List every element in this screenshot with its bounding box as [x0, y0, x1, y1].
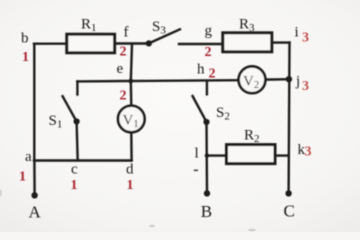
wire bottom rail a-c-d — [34, 159, 132, 161]
svg-text:2: 2 — [120, 45, 127, 60]
wire a to terminal A — [33, 161, 36, 195]
node l junction dot — [205, 153, 209, 157]
svg-text:g: g — [205, 23, 213, 39]
svg-text:1: 1 — [19, 170, 26, 185]
svg-text:1: 1 — [22, 50, 29, 65]
wire left column b to a — [33, 44, 35, 161]
svg-text:a: a — [25, 149, 32, 165]
wire S2 top stub (node h) — [206, 81, 208, 95]
svg-text:3: 3 — [302, 79, 309, 94]
svg-text:2: 2 — [209, 67, 216, 82]
switch S1 — [49, 95, 80, 130]
node e junction dot — [128, 79, 133, 84]
svg-text:j: j — [295, 74, 300, 90]
terminal B dot — [204, 190, 210, 196]
wire node e down to V1 — [130, 81, 133, 106]
voltmeter V2 — [239, 66, 266, 93]
wire R3 to corner i — [272, 41, 290, 43]
wire R2 to node k — [275, 154, 289, 156]
wire node f down to node e — [131, 44, 132, 81]
svg-text:C: C — [284, 202, 295, 221]
switch S3 — [146, 19, 181, 47]
terminal A dot — [31, 192, 37, 198]
wire R1 to S3 (node f) — [115, 42, 149, 44]
svg-text:d: d — [126, 162, 134, 178]
svg-text:A: A — [29, 203, 42, 222]
svg-text:3: 3 — [302, 31, 309, 46]
svg-text:i: i — [295, 25, 299, 41]
svg-text:l: l — [195, 146, 199, 162]
photo smudge bottom — [0, 190, 256, 232]
svg-text:c: c — [71, 162, 78, 178]
wire S3 to R3 (node g) — [179, 43, 223, 45]
wire node l to R2 — [207, 154, 227, 156]
node j junction dot — [286, 76, 292, 82]
svg-text:h: h — [197, 62, 205, 78]
svg-text:2: 2 — [120, 89, 127, 104]
wire S1 top stub — [76, 81, 78, 94]
svg-text:e: e — [117, 61, 124, 77]
resistor R3 — [223, 17, 272, 52]
wire V1 to node d — [130, 132, 133, 160]
svg-text:3: 3 — [305, 145, 312, 160]
wire S2 down through node l to terminal B — [205, 122, 208, 193]
svg-text:1: 1 — [71, 178, 78, 193]
svg-text:f: f — [124, 25, 129, 41]
wire right column i to j to k to C — [287, 43, 290, 194]
svg-text:2: 2 — [205, 45, 212, 60]
svg-text:b: b — [21, 31, 29, 47]
resistor R1 — [67, 17, 115, 53]
resistor R2 — [227, 128, 276, 164]
minus mark below l — [194, 169, 198, 171]
wire rail e-h to V2 — [77, 80, 238, 81]
terminal C dot — [285, 190, 291, 196]
wire V2 to node j — [266, 78, 289, 81]
svg-text:1: 1 — [127, 178, 134, 193]
svg-text:B: B — [201, 202, 212, 221]
voltmeter V1 — [118, 106, 145, 133]
wire b to R1 (top rail left) — [34, 43, 67, 45]
switch S2 — [192, 95, 230, 125]
wire S1 down to node c — [77, 122, 78, 161]
